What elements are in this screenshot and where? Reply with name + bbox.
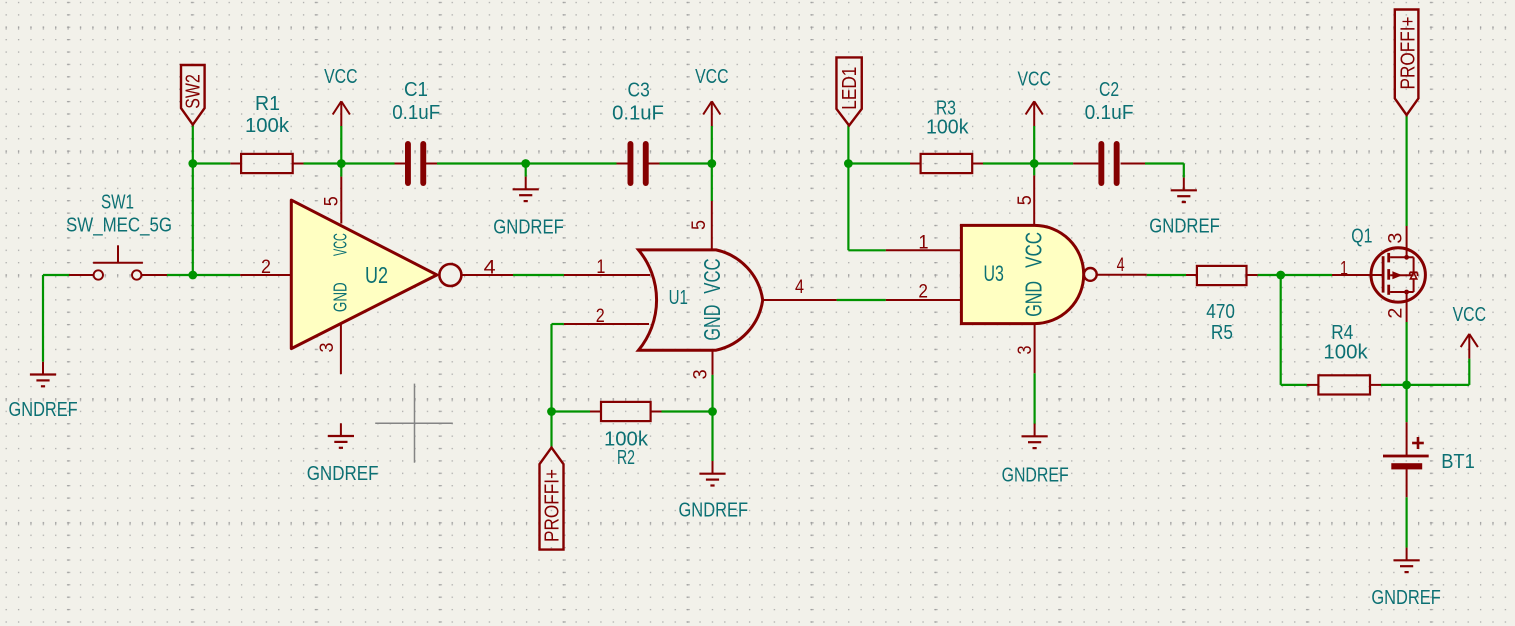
op-amp U2 body bbox=[291, 200, 461, 349]
svg-text:100k: 100k bbox=[245, 114, 290, 137]
svg-text:VCC: VCC bbox=[695, 65, 729, 88]
pin U3.4 bbox=[1097, 274, 1147, 276]
pin Q1.1 bbox=[1332, 274, 1383, 276]
svg-text:2: 2 bbox=[596, 306, 605, 327]
global label PROFFI+ bottom bbox=[540, 448, 564, 550]
wire bbox=[711, 126, 713, 164]
svg-text:3: 3 bbox=[1386, 233, 1407, 244]
wire bbox=[1033, 126, 1035, 164]
power VCC 3 bbox=[1018, 68, 1052, 127]
svg-text:2: 2 bbox=[1386, 308, 1407, 319]
svg-text:PROFFI+: PROFFI+ bbox=[542, 469, 564, 542]
resistor R4 bbox=[1318, 321, 1370, 395]
svg-text:470: 470 bbox=[1206, 300, 1235, 323]
junction LED1 bbox=[844, 159, 853, 168]
pin U3.5 bbox=[1033, 175, 1035, 225]
power VCC 4 bbox=[1453, 303, 1487, 359]
junction R4 bbox=[1402, 381, 1411, 390]
wire bbox=[43, 274, 70, 276]
label U2 bbox=[365, 262, 388, 288]
svg-text:Q1: Q1 bbox=[1351, 226, 1372, 248]
svg-text:GNDREF: GNDREF bbox=[9, 398, 78, 421]
pin C2.2 bbox=[1121, 163, 1145, 165]
pin Q1.2 bbox=[1406, 292, 1408, 322]
svg-text:SW2: SW2 bbox=[183, 74, 205, 109]
wire bbox=[1405, 322, 1407, 422]
pin C2.1 bbox=[1073, 163, 1098, 165]
label Q1 bbox=[1351, 226, 1372, 248]
wire bbox=[552, 323, 564, 325]
wire bbox=[526, 162, 617, 164]
pin U3.2 bbox=[886, 299, 961, 301]
wire bbox=[1033, 373, 1035, 424]
pin number 5 U1 bbox=[689, 220, 710, 230]
svg-text:1: 1 bbox=[918, 232, 928, 253]
ground GNDREF 1 bbox=[9, 362, 78, 421]
global label LED1 bbox=[836, 57, 861, 125]
svg-text:C3: C3 bbox=[628, 79, 650, 102]
wire bbox=[550, 324, 552, 448]
pin number 1 U3 bbox=[918, 232, 928, 253]
svg-text:GND: GND bbox=[330, 282, 350, 312]
svg-text:VCC: VCC bbox=[1021, 232, 1047, 268]
pin number 1 Q1 bbox=[1340, 258, 1348, 279]
wire bbox=[983, 162, 1034, 164]
pin R5.2 bbox=[1247, 274, 1258, 276]
ground GNDREF 2 bbox=[307, 423, 379, 485]
pin U1.1 bbox=[564, 274, 650, 276]
junction R5 bbox=[1276, 271, 1285, 280]
pin U3.3 bbox=[1034, 324, 1036, 374]
ground GNDREF 4 bbox=[679, 461, 749, 522]
wire bbox=[192, 125, 194, 164]
wire bbox=[1033, 164, 1035, 176]
svg-text:GND: GND bbox=[1021, 281, 1047, 317]
pin SW1.2 bbox=[142, 274, 167, 276]
pin R4.2 bbox=[1370, 384, 1381, 386]
pin name GND U2 bbox=[330, 282, 350, 312]
wire bbox=[711, 375, 713, 461]
wire bbox=[525, 164, 527, 177]
pin C1.2 bbox=[426, 163, 437, 165]
pin number 3 Q1 bbox=[1386, 233, 1407, 244]
wire bbox=[1183, 164, 1185, 178]
power VCC 1 bbox=[324, 65, 358, 126]
svg-text:1: 1 bbox=[1340, 258, 1348, 279]
resistor R2 bbox=[601, 402, 651, 469]
svg-text:U3: U3 bbox=[984, 261, 1004, 286]
pin number 2 Q1 bbox=[1386, 308, 1407, 319]
svg-text:GNDREF: GNDREF bbox=[307, 462, 379, 485]
svg-text:R5: R5 bbox=[1211, 321, 1233, 344]
svg-text:BT1: BT1 bbox=[1441, 450, 1475, 473]
nand-gate U3 body bbox=[961, 225, 1096, 323]
wire bbox=[848, 162, 910, 164]
or-gate U1 body bbox=[639, 250, 763, 350]
svg-text:0.1uF: 0.1uF bbox=[392, 101, 440, 124]
wire bbox=[1280, 275, 1282, 385]
wire bbox=[1258, 274, 1332, 276]
pin name VCC U3 bbox=[1021, 232, 1047, 268]
svg-text:VCC: VCC bbox=[699, 258, 725, 293]
resistor R3 bbox=[921, 96, 973, 173]
svg-text:U1: U1 bbox=[669, 287, 688, 309]
pin name VCC U1 bbox=[699, 258, 725, 293]
svg-text:VCC: VCC bbox=[324, 65, 358, 88]
pin SW1.1 bbox=[69, 274, 93, 276]
pin R1.1 bbox=[230, 163, 241, 165]
pin R5.1 bbox=[1186, 274, 1197, 276]
pin BT1.1 bbox=[1406, 422, 1408, 455]
junction D bbox=[707, 159, 716, 168]
svg-text:GNDREF: GNDREF bbox=[493, 216, 564, 239]
battery BT1 bbox=[1383, 437, 1475, 473]
pin number 2 U2 bbox=[261, 257, 271, 278]
switch SW1 bbox=[66, 191, 172, 280]
pin Q1.3 bbox=[1406, 226, 1408, 257]
svg-text:VCC: VCC bbox=[1018, 68, 1052, 91]
svg-text:2: 2 bbox=[261, 257, 271, 278]
transistor Q1 body bbox=[1371, 248, 1425, 302]
svg-text:3: 3 bbox=[690, 369, 711, 379]
pin U1.2 bbox=[564, 323, 649, 325]
svg-text:VCC: VCC bbox=[330, 233, 350, 256]
label U1 bbox=[669, 287, 688, 309]
wire bbox=[192, 164, 194, 276]
capacitor C3 bbox=[612, 79, 664, 184]
junction C bbox=[521, 159, 530, 168]
svg-text:1: 1 bbox=[596, 257, 605, 278]
svg-text:4: 4 bbox=[1117, 255, 1125, 276]
pin number 1 U1 bbox=[596, 257, 605, 278]
pin U1.5 bbox=[711, 201, 713, 251]
resistor R1 bbox=[241, 92, 293, 173]
wire bbox=[513, 274, 564, 276]
pin C1.1 bbox=[395, 163, 406, 165]
svg-text:GNDREF: GNDREF bbox=[1371, 586, 1440, 609]
wire bbox=[340, 164, 342, 177]
svg-text:SW_MEC_5G: SW_MEC_5G bbox=[66, 214, 172, 237]
pin R2.1 bbox=[590, 411, 601, 413]
pin U2.4 bbox=[461, 274, 513, 276]
pin number 4 U3 bbox=[1117, 255, 1125, 276]
resistor R5 bbox=[1197, 266, 1247, 344]
wire bbox=[1405, 497, 1407, 547]
global label PROFFI+ top bbox=[1395, 10, 1420, 116]
label U3 bbox=[984, 261, 1004, 286]
wire bbox=[552, 410, 591, 412]
ground GNDREF 6 bbox=[1149, 178, 1220, 238]
ground GNDREF 5 bbox=[1002, 424, 1069, 487]
wire bbox=[1405, 115, 1407, 226]
pin U3.1 bbox=[886, 249, 961, 251]
svg-text:4: 4 bbox=[795, 277, 804, 298]
junction B bbox=[337, 159, 346, 168]
svg-text:C1: C1 bbox=[404, 78, 428, 101]
wire bbox=[1281, 384, 1307, 386]
junction F bbox=[547, 407, 556, 416]
pin C3.1 bbox=[617, 163, 628, 165]
wire bbox=[1381, 384, 1469, 386]
svg-text:100k: 100k bbox=[926, 115, 969, 138]
svg-text:4: 4 bbox=[484, 257, 496, 278]
power VCC 2 bbox=[695, 65, 729, 126]
wire bbox=[1034, 162, 1073, 164]
svg-text:GNDREF: GNDREF bbox=[1149, 215, 1220, 238]
pin number 2 U3 bbox=[918, 282, 928, 303]
wire bbox=[1147, 274, 1186, 276]
wire bbox=[847, 126, 849, 251]
svg-text:SW1: SW1 bbox=[101, 191, 134, 214]
svg-text:5: 5 bbox=[322, 196, 343, 206]
svg-text:5: 5 bbox=[689, 220, 710, 230]
wire bbox=[660, 162, 712, 164]
pin U2.2 bbox=[240, 274, 291, 276]
svg-text:LED1: LED1 bbox=[839, 67, 861, 110]
wire bbox=[167, 274, 240, 276]
pin name VCC U2 bbox=[330, 233, 350, 256]
capacitor C2 bbox=[1085, 78, 1134, 183]
capacitor C1 bbox=[392, 78, 440, 183]
global label SW2 bbox=[181, 65, 205, 125]
pin R3.2 bbox=[972, 163, 983, 165]
wire bbox=[42, 275, 44, 362]
svg-text:R1: R1 bbox=[255, 92, 280, 115]
svg-text:GND: GND bbox=[699, 305, 725, 341]
svg-text:3: 3 bbox=[1015, 346, 1036, 355]
svg-text:R2: R2 bbox=[617, 446, 635, 469]
pin U2.3 bbox=[340, 324, 342, 374]
wire bbox=[340, 126, 342, 164]
svg-text:0.1uF: 0.1uF bbox=[1085, 101, 1134, 124]
wire bbox=[437, 162, 526, 164]
pin number 4 U1 bbox=[795, 277, 804, 298]
svg-text:2: 2 bbox=[918, 282, 928, 303]
wire bbox=[662, 410, 713, 412]
wire bbox=[711, 164, 713, 202]
wire bbox=[1145, 162, 1184, 164]
pin number 3 U1 bbox=[690, 369, 711, 379]
pin number 4 U2 bbox=[484, 257, 496, 278]
wire bbox=[1468, 359, 1470, 385]
pin name GND U3 bbox=[1021, 281, 1047, 317]
pin number 3 U2 bbox=[317, 343, 338, 353]
origin marker bbox=[375, 384, 453, 463]
pin number 3 U3 bbox=[1015, 346, 1036, 355]
pin C3.2 bbox=[649, 163, 660, 165]
pin U1.4 bbox=[763, 299, 837, 301]
ground GNDREF 7 bbox=[1371, 548, 1440, 609]
svg-text:5: 5 bbox=[1015, 195, 1036, 205]
svg-text:PROFFI+: PROFFI+ bbox=[1397, 17, 1419, 90]
pin R1.2 bbox=[293, 163, 304, 165]
svg-text:3: 3 bbox=[317, 343, 338, 353]
junction H bbox=[1030, 159, 1039, 168]
pin R4.1 bbox=[1307, 384, 1318, 386]
wire bbox=[341, 162, 394, 164]
pin number 5 U3 bbox=[1015, 195, 1036, 205]
svg-text:100k: 100k bbox=[1323, 340, 1368, 363]
svg-text:U2: U2 bbox=[365, 262, 388, 288]
svg-text:0.1uF: 0.1uF bbox=[612, 102, 664, 125]
svg-text:GNDREF: GNDREF bbox=[679, 499, 749, 522]
wire bbox=[837, 299, 886, 301]
pin R3.1 bbox=[910, 163, 921, 165]
svg-text:VCC: VCC bbox=[1453, 303, 1487, 326]
ground GNDREF 3 bbox=[493, 177, 564, 239]
junction G bbox=[708, 407, 717, 416]
wire bbox=[848, 249, 885, 251]
junction E bbox=[188, 271, 197, 280]
pin U2.5 bbox=[340, 177, 342, 224]
pin U1.3 bbox=[712, 350, 714, 375]
wire bbox=[193, 162, 231, 164]
pin number 2 U1 bbox=[596, 306, 605, 327]
pin BT1.2 bbox=[1406, 469, 1408, 497]
svg-text:C2: C2 bbox=[1099, 78, 1119, 101]
junction A bbox=[188, 159, 197, 168]
wire bbox=[304, 162, 342, 164]
pin number 5 U2 bbox=[322, 196, 343, 206]
svg-text:GNDREF: GNDREF bbox=[1002, 464, 1069, 487]
pin name GND U1 bbox=[699, 305, 725, 341]
pin R2.2 bbox=[651, 411, 662, 413]
